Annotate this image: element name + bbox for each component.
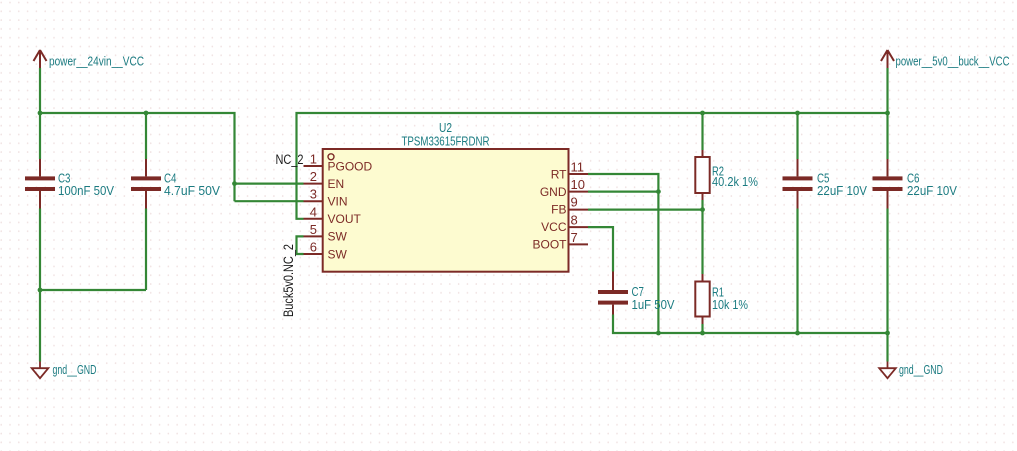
svg-text:2: 2 [310,169,317,184]
capacitor C6 [873,159,958,209]
svg-text:C7: C7 [632,285,645,299]
wire power flag stem right [886,68,888,113]
power flag power__24vin_VCC [34,50,47,68]
svg-text:22uF 10V: 22uF 10V [817,184,868,198]
resistor R1 [695,274,748,324]
U2 pin 7 BOOT [532,230,588,252]
wire GND pin 10 [588,191,658,193]
U2 pin 5 SW [304,222,348,244]
svg-text:8: 8 [571,212,578,227]
U2 pin 8 VCC [541,212,588,234]
capacitor C5 [783,159,868,209]
svg-text:TPSM33615FRDNR: TPSM33615FRDNR [402,135,490,149]
U2 pin 1 PGOOD [304,152,373,174]
U2 pin 9 FB [551,195,588,217]
U2 pin 6 SW [304,240,348,262]
wire power flag stem left [39,68,41,113]
svg-text:gnd__GND: gnd__GND [899,363,943,377]
svg-text:Buck5v0.NC_2: Buck5v0.NC_2 [281,244,296,317]
wire R1 leads [701,210,703,333]
svg-text:40.2k 1%: 40.2k 1% [712,175,758,189]
ground gnd__GND right [879,362,896,379]
svg-text:7: 7 [571,230,578,245]
U2 pin 11 RT [551,160,588,182]
power flag power__5v0__buck__VCC [881,50,894,68]
wire bottom-left ground link [40,289,146,291]
svg-text:4.7uF 50V: 4.7uF 50V [164,184,221,198]
resistor R2 [695,150,758,200]
svg-text:gnd__GND: gnd__GND [53,363,97,377]
U2 pin 10 GND [540,177,588,199]
svg-text:10: 10 [571,177,585,192]
svg-text:9: 9 [571,195,578,210]
wire VCC pin 8 to C7 [588,227,613,271]
svg-text:SW: SW [328,230,348,244]
svg-text:power__24vin__VCC: power__24vin__VCC [49,55,144,69]
capacitor C7 [598,272,675,315]
svg-text:NC_2: NC_2 [276,152,304,167]
svg-text:EN: EN [328,177,345,191]
wire C5 leads [796,113,798,333]
svg-text:RT: RT [551,167,567,181]
wire C6 leads [886,113,888,333]
wire right ground stem [886,333,888,362]
svg-text:VIN: VIN [328,195,348,209]
wire C4 leads [145,113,147,290]
svg-text:VCC: VCC [541,220,567,234]
svg-text:FB: FB [551,203,566,217]
wire SW bracket pins 5-6 [297,236,304,254]
svg-text:22uF 10V: 22uF 10V [907,184,958,198]
svg-text:1: 1 [310,152,317,167]
wire C7 bottom to ground rail [613,315,888,334]
svg-text:BOOT: BOOT [532,238,567,252]
svg-text:PGOOD: PGOOD [328,159,373,173]
svg-text:6: 6 [310,240,317,255]
svg-text:SW: SW [328,247,348,261]
U2 pin 4 VOUT [304,204,362,226]
wire VOUT vertical to 5V rail [297,113,888,219]
svg-text:1uF 50V: 1uF 50V [632,298,676,312]
ground gnd__GND left [32,362,49,379]
U2 pin 2 EN [304,169,345,191]
wire 24V top rail [40,113,235,201]
svg-text:11: 11 [571,160,585,175]
U2 pin 3 VIN [304,187,348,209]
svg-text:U2: U2 [439,121,452,135]
svg-text:power__5v0__buck__VCC: power__5v0__buck__VCC [896,55,1010,69]
wire VIN branch [235,200,304,202]
svg-text:VOUT: VOUT [328,212,362,226]
svg-text:GND: GND [540,185,567,199]
op-amp U1 placeholder: IC U2 body [323,149,569,272]
svg-text:4: 4 [310,204,317,219]
wire R2 leads [701,113,703,210]
wire EN branch [235,183,304,185]
svg-text:10k 1%: 10k 1% [712,298,748,312]
wire FB pin 9 [588,209,703,211]
svg-text:100nF 50V: 100nF 50V [58,184,115,198]
wire RT to GND vertical [588,174,658,333]
wire C3 leads [39,113,41,362]
svg-text:3: 3 [310,187,317,202]
capacitor C3 [25,159,115,209]
capacitor C4 [131,159,221,209]
svg-text:5: 5 [310,222,317,237]
